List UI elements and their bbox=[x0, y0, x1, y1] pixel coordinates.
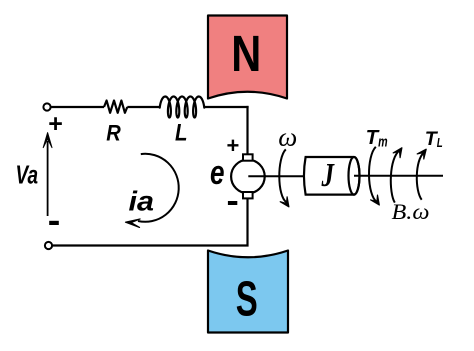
minus sign at source bottom bbox=[49, 221, 59, 225]
wire bottom from negative terminal to motor bbox=[52, 198, 248, 246]
positive terminal node bbox=[43, 103, 50, 110]
damping arrow B.omega arc bbox=[391, 150, 400, 202]
shaft right from inertia bbox=[354, 175, 443, 177]
current arrow ia arc bbox=[138, 154, 179, 222]
shaft left from rotor to inertia bbox=[248, 175, 306, 177]
magnet N pole bbox=[208, 16, 287, 99]
resistor R bbox=[104, 101, 127, 113]
load torque arrowhead TL bbox=[417, 149, 426, 159]
wire top from positive terminal to resistor bbox=[51, 106, 105, 108]
inertia cylinder J end ellipse bbox=[349, 157, 360, 195]
inertia cylinder J body bbox=[304, 157, 360, 195]
svg-text:N: N bbox=[231, 25, 261, 82]
svg-text:J: J bbox=[321, 157, 335, 194]
magnet S pole bbox=[208, 251, 288, 333]
svg-text:ia: ia bbox=[129, 186, 155, 217]
svg-text:Va: Va bbox=[16, 160, 39, 190]
svg-text:ω: ω bbox=[278, 123, 297, 152]
minus sign at back-emf bbox=[228, 201, 237, 205]
wire from inductor to top corner bbox=[204, 106, 249, 108]
load torque arrow TL arc bbox=[417, 153, 424, 200]
rotation arrow omega arc bbox=[279, 149, 286, 202]
svg-text:+: + bbox=[48, 110, 63, 138]
shaft stub inside rotor bbox=[248, 175, 266, 177]
damping arrowhead B.omega bbox=[393, 148, 402, 158]
negative terminal node bbox=[45, 242, 52, 249]
bottom brush bbox=[243, 192, 253, 198]
wire between resistor and inductor bbox=[127, 106, 160, 108]
Va arrowhead bbox=[43, 133, 52, 148]
svg-text:+: + bbox=[227, 133, 240, 158]
top brush bbox=[243, 154, 253, 160]
wire down to motor top brush bbox=[246, 106, 248, 155]
svg-text:L: L bbox=[175, 120, 188, 147]
torque arrowhead Tm bbox=[371, 195, 380, 205]
rotation arrowhead omega bbox=[280, 197, 289, 207]
svg-text:e: e bbox=[210, 154, 225, 192]
motor armature circle bbox=[231, 160, 265, 194]
torque arrow Tm arc bbox=[369, 147, 377, 203]
Va arrow line bbox=[47, 141, 49, 216]
inductor L bbox=[160, 97, 205, 118]
svg-text:B.ω: B.ω bbox=[392, 199, 430, 224]
svg-text:R: R bbox=[106, 121, 121, 146]
svg-text:S: S bbox=[236, 273, 258, 327]
current arrowhead ia bbox=[126, 219, 141, 227]
